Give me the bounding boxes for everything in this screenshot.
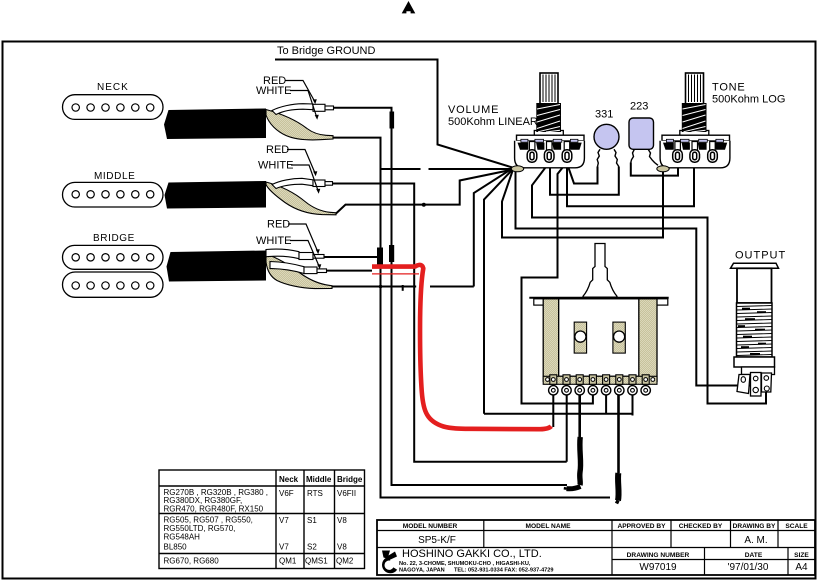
- svg-text:V8: V8: [337, 516, 347, 525]
- svg-text:Neck: Neck: [279, 475, 299, 484]
- svg-text:A. M.: A. M.: [744, 535, 767, 546]
- svg-text:CHECKED BY: CHECKED BY: [679, 523, 723, 530]
- svg-text:WHITE: WHITE: [258, 160, 293, 172]
- svg-text:RED: RED: [266, 144, 289, 156]
- svg-text:QM2: QM2: [336, 557, 354, 566]
- svg-text:WHITE: WHITE: [256, 85, 291, 97]
- svg-text:Middle: Middle: [306, 475, 332, 484]
- svg-text:V6F: V6F: [279, 489, 294, 498]
- svg-text:NAGOYA, JAPAN TEL: 052-93: NAGOYA, JAPAN TEL: 052-931-0334 FAX: 052…: [399, 568, 554, 574]
- svg-text:W97019: W97019: [639, 562, 677, 573]
- svg-text:V7: V7: [279, 543, 289, 552]
- svg-text:V7: V7: [279, 516, 289, 525]
- svg-text:RTS: RTS: [307, 489, 323, 498]
- svg-text:VOLUME: VOLUME: [448, 104, 499, 116]
- svg-text:DRAWING NUMBER: DRAWING NUMBER: [627, 552, 690, 559]
- svg-text:RG670, RG680: RG670, RG680: [164, 557, 220, 566]
- svg-text:RG548AH: RG548AH: [164, 533, 201, 542]
- svg-text:APPROVED BY: APPROVED BY: [618, 523, 667, 530]
- svg-text:HOSHINO GAKKI CO., LTD.: HOSHINO GAKKI CO., LTD.: [402, 548, 542, 560]
- svg-text:QMS1: QMS1: [305, 557, 328, 566]
- svg-text:NECK: NECK: [97, 82, 129, 93]
- svg-text:Bridge: Bridge: [337, 475, 363, 484]
- svg-text:DRAWING BY: DRAWING BY: [733, 523, 776, 530]
- svg-text:500Kohm LOG: 500Kohm LOG: [712, 94, 785, 106]
- svg-text:MODEL NUMBER: MODEL NUMBER: [403, 523, 458, 530]
- svg-text:BRIDGE: BRIDGE: [93, 233, 135, 244]
- svg-text:MIDDLE: MIDDLE: [94, 171, 135, 182]
- svg-text:BL850: BL850: [164, 543, 188, 552]
- svg-text:A4: A4: [795, 562, 808, 573]
- svg-text:500Kohm LINEAR: 500Kohm LINEAR: [448, 116, 538, 128]
- svg-text:WHITE: WHITE: [256, 235, 291, 247]
- svg-text:TONE: TONE: [712, 82, 746, 94]
- svg-text:V8: V8: [337, 543, 347, 552]
- svg-text:SP5-K/F: SP5-K/F: [418, 535, 456, 546]
- svg-text:No. 22, 3-CHOME, SHUMOKU-CHO ,: No. 22, 3-CHOME, SHUMOKU-CHO , HIGASHI-K…: [399, 561, 531, 567]
- svg-text:331: 331: [595, 109, 613, 121]
- svg-text:MODEL NAME: MODEL NAME: [526, 523, 572, 530]
- svg-text:223: 223: [630, 101, 648, 113]
- svg-text:OUTPUT: OUTPUT: [735, 250, 786, 262]
- svg-text:RGR470, RGR480F, RX150: RGR470, RGR480F, RX150: [164, 505, 264, 514]
- svg-text:SCALE: SCALE: [785, 523, 808, 530]
- svg-text:To Bridge GROUND: To Bridge GROUND: [277, 45, 375, 57]
- svg-text:V6FII: V6FII: [337, 489, 356, 498]
- svg-text:S1: S1: [307, 516, 317, 525]
- svg-text:SIZE: SIZE: [794, 552, 809, 559]
- svg-text:QM1: QM1: [279, 557, 297, 566]
- svg-text:RED: RED: [267, 219, 290, 231]
- svg-text:DATE: DATE: [745, 552, 763, 559]
- svg-text:'97/01/30: '97/01/30: [728, 562, 769, 573]
- svg-text:S2: S2: [307, 543, 317, 552]
